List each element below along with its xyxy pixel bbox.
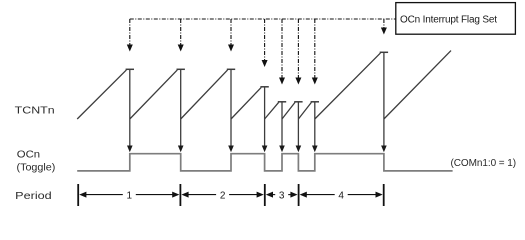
TCNTn reset drop arrow 3 bbox=[228, 69, 234, 152]
flag arrow 7 bbox=[312, 19, 318, 85]
dashed flag link line (horizontal) bbox=[130, 18, 396, 20]
TCNTn peak top 6 bbox=[294, 101, 302, 103]
period tick 3 bbox=[264, 184, 266, 206]
TCNTn ramp 4 bbox=[231, 87, 261, 119]
svg-text:Period: Period bbox=[15, 191, 52, 202]
TCNTn ramp 5 bbox=[265, 102, 279, 119]
svg-text:3: 3 bbox=[279, 190, 285, 201]
flag arrow 3 bbox=[228, 19, 234, 52]
TCNTn peak top 7 bbox=[311, 101, 319, 103]
svg-text:(COMn1:0 = 1): (COMn1:0 = 1) bbox=[451, 158, 517, 169]
OCn toggle waveform bbox=[77, 154, 452, 171]
period tick 4 bbox=[298, 184, 300, 206]
period span 3 arrows bbox=[266, 192, 298, 198]
flag arrow 2 bbox=[178, 19, 184, 52]
OCn Interrupt Flag Set box bbox=[396, 3, 516, 35]
TCNTn peak top 8 bbox=[380, 51, 388, 53]
TCNTn peak top 1 bbox=[126, 68, 134, 70]
TCNTn reset drop arrow 1 bbox=[127, 69, 133, 152]
period span 2 arrows bbox=[181, 192, 263, 198]
period tick 5 bbox=[383, 184, 385, 206]
svg-text:OCn Interrupt Flag Set: OCn Interrupt Flag Set bbox=[400, 15, 497, 26]
flag arrow 1 bbox=[127, 19, 133, 52]
period tick 2 bbox=[179, 184, 181, 206]
flag arrow 6 bbox=[295, 19, 301, 85]
TCNTn reset drop arrow 5 bbox=[279, 102, 285, 152]
TCNTn reset drop arrow 4 bbox=[262, 87, 268, 152]
svg-text:(Toggle): (Toggle) bbox=[17, 163, 56, 174]
TCNTn ramp 2 bbox=[130, 70, 178, 119]
flag arrow 8 bbox=[381, 19, 387, 35]
svg-text:OCn: OCn bbox=[17, 150, 40, 161]
svg-text:TCNTn: TCNTn bbox=[15, 105, 55, 116]
period span 1 arrows bbox=[79, 192, 179, 198]
flag arrow 4 bbox=[262, 19, 268, 67]
TCNTn peak top 4 bbox=[260, 86, 268, 88]
TCNTn reset drop arrow 2 bbox=[178, 69, 184, 152]
TCNTn reset drop arrow 7 bbox=[312, 102, 318, 152]
svg-text:1: 1 bbox=[127, 190, 133, 201]
flag arrow 5 bbox=[279, 19, 285, 85]
period span 4 arrows bbox=[300, 192, 383, 198]
svg-text:4: 4 bbox=[338, 190, 344, 201]
period tick 1 bbox=[77, 184, 79, 206]
TCNTn peak top 5 bbox=[278, 101, 286, 103]
TCNTn ramp 1 bbox=[77, 70, 126, 119]
TCNTn ramp 3 bbox=[181, 70, 228, 119]
TCNTn reset drop arrow 6 bbox=[296, 102, 302, 152]
svg-text:2: 2 bbox=[220, 190, 226, 201]
TCNTn ramp 8 bbox=[315, 53, 381, 119]
TCNTn reset drop arrow 8 bbox=[381, 52, 387, 152]
TCNTn peak top 3 bbox=[227, 68, 235, 70]
TCNTn ramp 7 bbox=[298, 102, 311, 119]
TCNTn peak top 2 bbox=[177, 68, 185, 70]
TCNTn ramp 9 (final) bbox=[384, 51, 451, 119]
TCNTn ramp 6 bbox=[282, 102, 295, 119]
